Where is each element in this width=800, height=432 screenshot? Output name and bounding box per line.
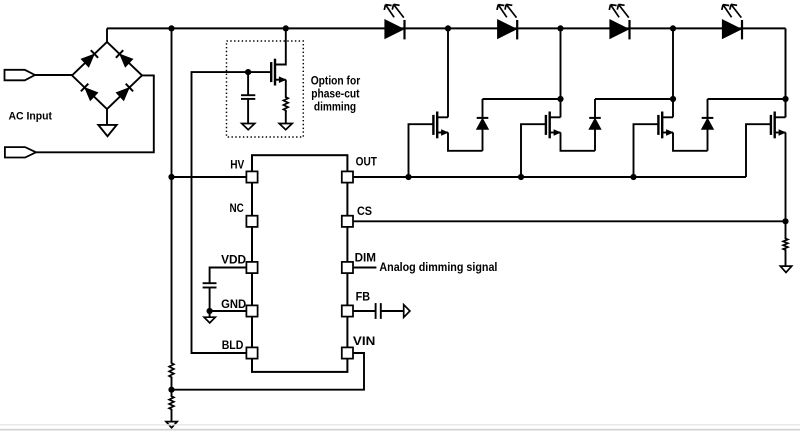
pin HV of U1 [246, 171, 257, 182]
pin DIM of U1 [342, 262, 353, 273]
wire Q1 gate node [192, 72, 272, 353]
transistor Q4 (bypass FET stage 3) [661, 112, 663, 139]
capacitor C1 top lead [247, 72, 249, 95]
svg-text:FB: FB [356, 290, 371, 304]
wire diode D9 cathode to next node [483, 98, 561, 100]
connector J2 AC neutral input [5, 147, 36, 157]
svg-text:dimming: dimming [314, 100, 356, 114]
wire HV rail vertical [171, 28, 173, 363]
wire J1 to bridge left vertex [35, 74, 72, 76]
wire bridge top vertex to rail [106, 28, 108, 42]
decorative-none bottom hairline 2 [0, 429, 800, 431]
transistor Q1 (phase-cut dimmer FET) [274, 59, 276, 86]
svg-text:Analog dimming signal: Analog dimming signal [379, 260, 497, 274]
pin BLD of U1 [246, 347, 257, 358]
ground below bridge [98, 125, 116, 136]
dashed box: phase-cut dimming option [227, 41, 304, 137]
node rail junction after LED1 [445, 25, 451, 31]
wire R1 to ground [285, 110, 287, 123]
wire R4 to ground [785, 250, 787, 266]
capacitor C3 (FB compensation) [375, 303, 377, 319]
wire gate riser stage 3 [634, 124, 659, 177]
bridge rectifier diode D1 (left-to-top) [81, 54, 94, 66]
wire rectified DC top rail [107, 27, 786, 29]
svg-text:CS: CS [357, 204, 372, 218]
node GND/C2 junction [207, 308, 213, 314]
svg-text:VIN: VIN [353, 334, 375, 348]
bridge rectifier diode D2 (right-to-top) [120, 54, 133, 66]
svg-text:HV: HV [230, 158, 244, 172]
wire GND node to ground [209, 311, 211, 317]
wire CS junction to R4 [785, 221, 787, 238]
bridge rectifier diode D4 (bottom-to-right) [116, 88, 129, 100]
diode D10 (bypass steering) [594, 129, 596, 151]
transistor Q2 (bypass FET stage 1) [436, 112, 438, 139]
wire Q1 drain to rail [274, 28, 286, 64]
terminal arrow FB output [404, 305, 410, 318]
pin OUT of U1 [342, 171, 353, 182]
node rail junction after LED3 [670, 25, 676, 31]
wire source stage 3 [673, 133, 708, 151]
wire drain stage 2 [560, 28, 562, 117]
LED D7 with emission arrows [610, 20, 629, 39]
node diode junction 3 [782, 96, 788, 102]
decorative-none bottom hairline 1 [0, 424, 800, 425]
connector J1 AC line input [5, 70, 35, 81]
capacitor C1 bottom lead [247, 99, 249, 124]
pin VDD of U1 [246, 262, 257, 273]
wire FB to C3 [353, 310, 376, 312]
LED D5 with emission arrows [385, 20, 404, 39]
node rail-HV junction [168, 25, 174, 31]
wire between R2 and R3 [171, 377, 173, 397]
svg-text:DIM: DIM [355, 251, 376, 265]
ground below C2 [204, 317, 215, 323]
node diode junction 2 [670, 96, 676, 102]
svg-text:GND: GND [221, 297, 246, 311]
wire source stage 1 [448, 133, 483, 151]
wire source stage 4 [785, 133, 787, 222]
wire CS sense line [353, 220, 786, 222]
node gate bus junction 1 [405, 174, 411, 180]
ground below R1 [279, 124, 292, 130]
node CS junction [782, 218, 788, 224]
wire VDD to C2 [210, 268, 247, 284]
pin FB of U1 [342, 305, 353, 316]
svg-text:VDD: VDD [221, 252, 246, 266]
bridge rectifier diode D3 (bottom-to-left) [85, 88, 98, 100]
wire gate riser stage 4 [746, 124, 771, 177]
wire gate riser stage 2 [521, 124, 546, 177]
wire DIM stub [353, 267, 377, 269]
node diode junction 1 [557, 96, 563, 102]
node gate bus junction 3 [630, 174, 636, 180]
capacitor C1 [241, 94, 255, 96]
svg-text:phase-cut: phase-cut [311, 87, 359, 101]
svg-text:OUT: OUT [356, 154, 378, 168]
wire VIN to bottom return [172, 353, 365, 390]
svg-text:BLD: BLD [222, 338, 244, 352]
wire bridge bottom vertex to ground [106, 109, 108, 125]
pin CS of U1 [342, 216, 353, 227]
LED D6 with emission arrows [498, 20, 517, 39]
resistor R2 (upper BLD divider) [169, 362, 174, 379]
ground below C1 [242, 124, 255, 130]
node rail junction after LED2 [557, 25, 563, 31]
op-amp/controller IC U1 body [252, 155, 347, 372]
node gate bus junction 2 [518, 174, 524, 180]
resistor R4 (current sense) [783, 237, 788, 252]
wire J2 to bridge right vertex [36, 75, 154, 152]
pin VIN of U1 [342, 347, 353, 358]
wire right edge drop to bypass stage 4 [785, 28, 787, 117]
resistor R3 (lower BLD divider) [169, 395, 174, 411]
wire diode D11 cathode to next node [708, 98, 786, 100]
wire drain stage 3 [672, 28, 674, 117]
svg-text:NC: NC [230, 201, 245, 215]
resistor R1 lead from Q1 source [285, 80, 287, 98]
pin GND of U1 [246, 305, 257, 316]
node rail-dimmer junction [283, 25, 289, 31]
resistor R1 (dimmer source) [283, 96, 288, 112]
wire HV to pin [172, 176, 247, 178]
diode D9 (bypass steering) [482, 129, 484, 151]
wire C2 to GND node [209, 288, 211, 312]
wire drain stage 1 [447, 28, 449, 117]
transistor Q3 (bypass FET stage 2) [549, 112, 551, 139]
LED D8 with emission arrows [722, 20, 741, 39]
node Q1 gate / C1 junction [245, 69, 251, 75]
node HV junction [168, 174, 174, 180]
capacitor C2 (VDD decoupling) [203, 282, 217, 284]
wire R3 to ground [171, 409, 173, 421]
ground below R4 [780, 266, 791, 272]
svg-text:AC Input: AC Input [9, 110, 53, 122]
pin NC of U1 [246, 216, 257, 227]
wire OUT gate bus [353, 176, 746, 178]
node VIN return junction [168, 387, 174, 393]
transistor Q5 (bypass FET stage 4) [774, 112, 776, 139]
wire GND pin to node [210, 310, 247, 312]
wire C3 to terminal [381, 310, 404, 312]
diode D11 (bypass steering) [707, 129, 709, 151]
svg-text:Option for: Option for [311, 74, 361, 88]
wire diode D10 cathode to next node [595, 98, 673, 100]
ground below R3 [166, 422, 177, 428]
bridge frame wires [72, 42, 142, 109]
wire gate riser stage 1 [409, 124, 434, 177]
wire source stage 2 [561, 133, 596, 151]
